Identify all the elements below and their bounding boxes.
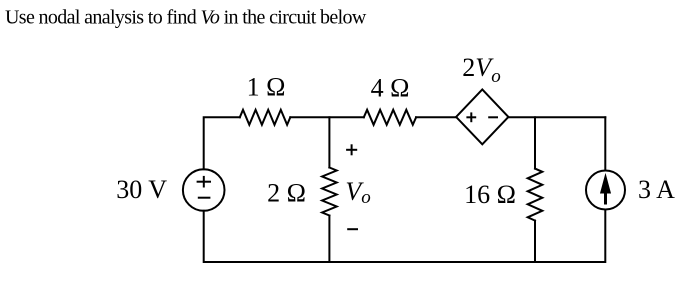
svg-text:30 V: 30 V (116, 175, 167, 204)
svg-text:3 A: 3 A (638, 175, 675, 204)
svg-text:2 Ω: 2 Ω (267, 178, 306, 207)
svg-text:1 Ω: 1 Ω (247, 72, 286, 101)
svg-text:16 Ω: 16 Ω (464, 180, 516, 209)
svg-text:Vo: Vo (345, 177, 370, 208)
svg-text:4 Ω: 4 Ω (371, 74, 410, 103)
svg-text:Use nodal analysis to find Vo: Use nodal analysis to find Vo in the cir… (5, 7, 367, 29)
svg-text:2Vo: 2Vo (462, 53, 500, 87)
